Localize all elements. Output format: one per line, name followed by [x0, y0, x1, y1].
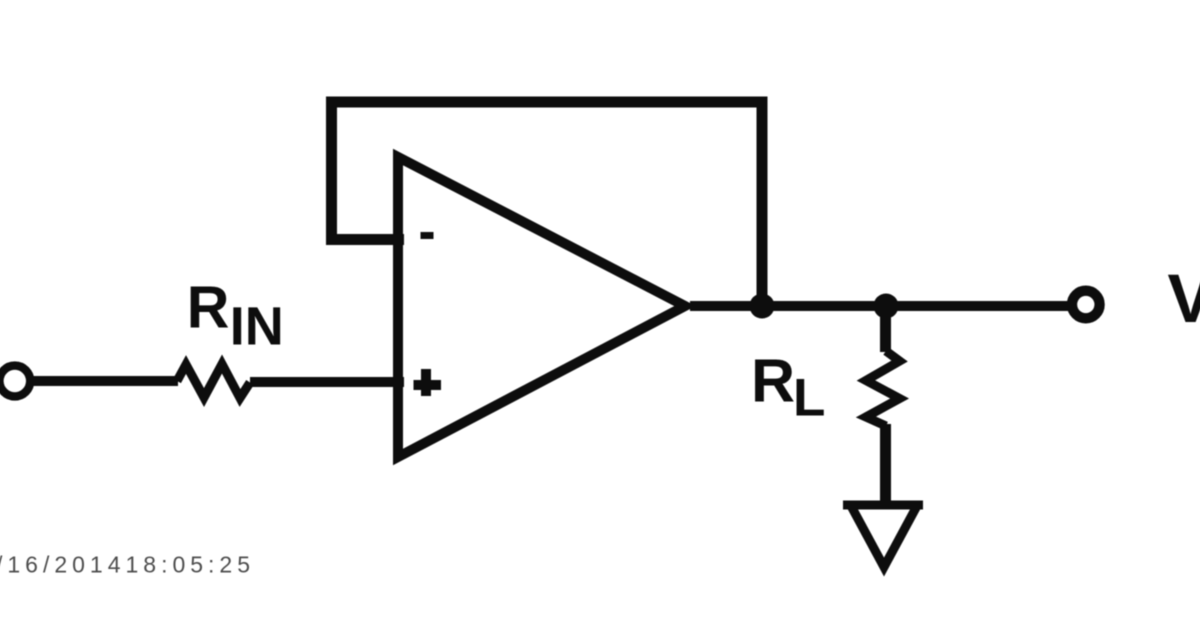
node junction dot (load branch) — [874, 294, 899, 319]
svg-text:V: V — [1168, 260, 1200, 337]
output terminal circle — [1072, 291, 1100, 319]
ground symbol triangle sides — [850, 504, 918, 567]
op-amp U1 triangle — [398, 157, 685, 457]
node junction dot (feedback/output) — [750, 294, 775, 319]
svg-text:R: R — [751, 346, 795, 414]
wire resistor RIN to op-amp + input — [250, 377, 404, 387]
svg-text:/16/201418:05:25: /16/201418:05:25 — [0, 552, 250, 578]
svg-text:IN: IN — [230, 297, 284, 357]
resistor RIN zigzag — [177, 364, 250, 398]
wire input to resistor RIN — [29, 376, 178, 386]
wire resistor RL to ground — [880, 424, 891, 506]
svg-text:R: R — [187, 275, 230, 341]
wire node to resistor RL — [880, 306, 891, 352]
feedback wire (minus input, up, across, down to output) — [332, 102, 763, 306]
op-amp minus sign — [421, 232, 434, 239]
input terminal circle — [0, 366, 30, 397]
op-amp plus sign — [414, 369, 442, 396]
svg-text:L: L — [793, 369, 825, 428]
resistor RL zigzag — [866, 351, 900, 426]
ground symbol top bar — [843, 501, 923, 510]
output wire from op-amp apex to output terminal — [690, 301, 1068, 311]
